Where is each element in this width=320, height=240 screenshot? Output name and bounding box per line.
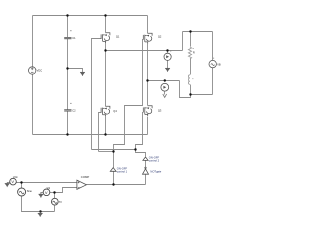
wire sine ref to comp plus: [17, 182, 77, 184]
source Tri: [51, 198, 58, 205]
wire right leg lower: [147, 117, 149, 135]
wire gate bus A: [92, 149, 136, 151]
junction comparator output onoff1: [112, 183, 114, 185]
wire node B jog down: [180, 81, 191, 98]
svg-text:COMP: COMP: [81, 175, 90, 179]
junction node B probe tap: [164, 79, 166, 81]
wire comparator output: [87, 184, 146, 186]
NOT gate: [143, 167, 149, 174]
svg-text:C1: C1: [72, 36, 76, 40]
wire onoff1 input: [113, 172, 115, 185]
wire load box bottom rail: [191, 94, 213, 96]
inductor L: [188, 75, 190, 85]
wire capacitor branch lower: [67, 111, 69, 135]
svg-text:VDC: VDC: [37, 69, 43, 73]
wire onoff2 output jog: [136, 150, 146, 157]
ground probe Vo: [165, 68, 170, 72]
svg-text:V: V: [11, 179, 14, 184]
voltage source VDC: [29, 67, 36, 74]
transistor Q3: [143, 106, 152, 116]
junction top rail C branch: [66, 14, 68, 16]
ground control bottom: [38, 212, 43, 217]
wire node A horizontal: [106, 50, 183, 52]
wire left leg lower: [105, 117, 107, 135]
svg-text:Tri: Tri: [59, 200, 62, 204]
svg-text:Sine: Sine: [27, 189, 33, 193]
wire sine source top stub: [21, 183, 23, 189]
junction tri ref tap: [53, 191, 55, 193]
wire probe Vo stem lower: [167, 61, 169, 69]
voltage source VB: [209, 60, 216, 67]
svg-text:Q3: Q3: [158, 108, 162, 112]
on-off controller 1: [110, 168, 116, 172]
wire midpoint ground stub: [68, 69, 83, 73]
wire tri source top stub: [54, 193, 56, 199]
wire Q4 gate feed: [99, 113, 102, 152]
junction node A probe tap: [166, 49, 168, 51]
junction load top rail R branch: [189, 30, 191, 32]
capacitor C1: [64, 37, 71, 38]
capacitor C2: [64, 110, 71, 111]
wire left leg middle: [105, 43, 107, 107]
junction bottom rail left leg: [104, 133, 106, 135]
source Sine: [18, 188, 26, 196]
svg-text:Vdm: Vdm: [13, 176, 18, 179]
junction node A on left leg: [104, 49, 106, 51]
wire capacitor branch upper: [67, 16, 69, 38]
probe Vsin: [10, 178, 17, 185]
wire tri to comp minus: [55, 188, 77, 193]
wire probe Vsin left stub: [8, 182, 10, 184]
wire left DC side upper: [32, 16, 34, 67]
transistor Q4: [101, 106, 110, 116]
svg-text:Q4: Q4: [113, 109, 117, 113]
wire R to L stub: [190, 59, 192, 75]
wire probe Vtri right stub: [50, 192, 55, 194]
wire probe Is stem: [164, 92, 166, 95]
junction bottom rail C branch: [66, 133, 68, 135]
probe Vo circle: [164, 53, 171, 60]
probe Vtri: [43, 189, 50, 196]
wire sine source bottom: [22, 197, 55, 212]
transistor Q2: [143, 33, 152, 43]
svg-text:V: V: [45, 190, 48, 195]
svg-text:Q2: Q2: [158, 35, 162, 39]
on-off controller 2: [143, 157, 148, 160]
ground probe Vsin: [5, 182, 10, 187]
junction top rail left leg: [104, 14, 106, 16]
junction sine ref tap: [20, 181, 22, 183]
wire right leg middle: [147, 44, 149, 106]
transistor Q1: [101, 33, 110, 43]
wire gate bus B: [99, 151, 114, 153]
svg-text:NOTgate: NOTgate: [150, 169, 161, 173]
wire onoff2 to notgate: [145, 161, 147, 168]
svg-text:control 1: control 1: [117, 170, 128, 174]
wire capacitor branch middle: [67, 39, 69, 110]
svg-text:C2: C2: [72, 109, 76, 113]
junction load bottom rail L branch: [189, 93, 191, 95]
wire L bottom stub: [190, 85, 192, 95]
svg-text:control 2: control 2: [149, 159, 160, 163]
wire Q3 gate feed from bus A: [136, 113, 144, 150]
wire node B horizontal: [148, 80, 180, 82]
junction control ground: [39, 210, 41, 212]
svg-text:Q1: Q1: [116, 35, 120, 39]
wire node A riser to load box: [182, 32, 184, 51]
comparator COMP: [77, 180, 87, 189]
arrow probe Is: [163, 94, 167, 97]
wire left leg upper: [105, 16, 107, 33]
wire onoff1 output: [113, 152, 115, 168]
wire Q1 gate feed: [92, 39, 102, 150]
wire right leg upper: [147, 16, 149, 34]
wire Q2 gate feed from bus B: [114, 40, 144, 152]
resistor R: [188, 47, 191, 59]
wire VB branch upper: [212, 32, 214, 61]
wire load box top rail: [183, 31, 213, 33]
wire tri source bottom: [54, 206, 56, 212]
svg-text:R: R: [193, 50, 195, 54]
ground probe Vtri: [39, 192, 44, 198]
junction capacitor midpoint: [66, 67, 68, 69]
wire left DC side lower: [32, 75, 34, 135]
svg-text:VB: VB: [217, 62, 221, 66]
wire notgate input: [145, 175, 147, 185]
wire R branch top stub: [190, 32, 192, 47]
probe Is circle: [161, 83, 169, 91]
wire top DC rail: [33, 15, 148, 17]
svg-text:Vtri: Vtri: [47, 187, 51, 190]
wire probe Vtri left stub: [41, 192, 44, 194]
ground capacitor midpoint: [80, 72, 85, 76]
junction gate bus B onoff1: [112, 150, 114, 152]
junction gate bus A onoff2: [134, 148, 136, 150]
wire probe Vo stem upper: [167, 51, 169, 54]
wire bottom DC rail: [33, 134, 148, 136]
wire VB branch lower: [212, 68, 214, 95]
junction node B on right leg: [146, 79, 148, 81]
